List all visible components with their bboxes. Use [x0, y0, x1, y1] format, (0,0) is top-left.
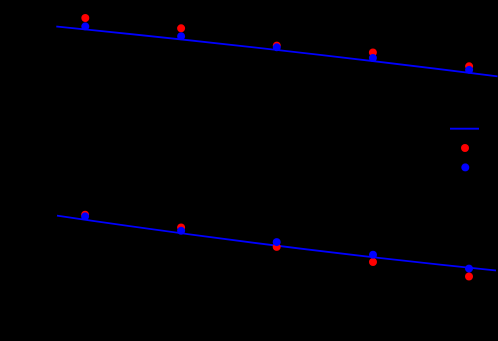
top series red point 5 — [465, 62, 473, 70]
legend blue marker sample — [461, 163, 469, 171]
top series red point 1 — [81, 14, 89, 22]
top series blue point 1 — [81, 22, 89, 30]
bottom series red point 4 — [369, 258, 377, 266]
bottom series blue point 1 — [81, 212, 89, 220]
top series blue point 5 — [465, 66, 473, 74]
bottom series blue point 2 — [177, 227, 185, 235]
top series blue point 3 — [273, 43, 281, 51]
top series red point 3 — [273, 42, 281, 50]
top series blue point 2 — [177, 32, 185, 40]
fit line (top series) — [56, 26, 497, 76]
legend red marker sample — [461, 144, 469, 152]
bottom series red point 2 — [177, 224, 185, 232]
bottom series blue point 3 — [273, 238, 281, 246]
top series red point 2 — [177, 24, 185, 32]
fit line (bottom series) — [57, 216, 496, 271]
legend line sample — [450, 128, 479, 130]
bottom series red point 3 — [273, 243, 281, 251]
bottom series blue point 4 — [369, 251, 377, 259]
top series red point 4 — [369, 49, 377, 57]
top series blue point 4 — [369, 54, 377, 62]
bottom series red point 5 — [465, 273, 473, 281]
bottom series red point 1 — [81, 211, 89, 219]
bottom series blue point 5 — [465, 265, 473, 273]
